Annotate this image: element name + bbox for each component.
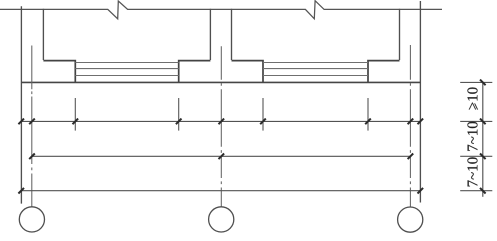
slab bottom edge line	[21, 81, 420, 83]
slab joint thin lines left span	[75, 63, 178, 76]
right wall step profile	[368, 61, 400, 83]
extension stub at x=178	[178, 98, 180, 131]
grid bubble A	[19, 207, 44, 232]
right chain extension line at slab edge	[460, 81, 492, 83]
wire left inner wall line x=43	[42, 9, 44, 60]
dimension line 3	[21, 190, 420, 192]
axis centerline A (left)	[31, 46, 33, 207]
right chain extension line at dim3 level	[460, 190, 492, 192]
ticks on right vertical dimension line	[480, 80, 486, 194]
wire right inner wall line x=399	[399, 9, 401, 60]
grid bubble C	[398, 207, 423, 232]
grid bubble B	[209, 207, 234, 232]
dimension text 7~10 (upper)	[467, 122, 477, 151]
axis centerline C (right)	[409, 45, 411, 207]
left wall step profile	[43, 61, 75, 83]
wire right outer wall line x=420	[419, 1, 421, 203]
ticks on dimension line 3	[18, 188, 423, 194]
dimension line 1	[21, 120, 420, 122]
top wall line with two break symbols	[0, 1, 442, 19]
right chain extension line at dim1 level	[460, 120, 492, 122]
wire middle wall left line x=210	[209, 9, 211, 60]
middle wall step profile	[179, 61, 263, 83]
wire middle wall right line x=231	[231, 9, 233, 60]
wire left outer wall line x=21	[20, 6, 22, 203]
axis centerline B (middle)	[220, 46, 222, 207]
extension stub at x=75	[74, 98, 76, 131]
extension stub at x=263	[262, 98, 264, 131]
dimension text >=10	[467, 87, 478, 109]
slab joint thin lines right span	[263, 63, 368, 76]
dimension line 2	[32, 155, 411, 157]
dimension text 7~10 (lower)	[467, 157, 477, 186]
right vertical dimension line	[482, 82, 484, 197]
ticks on dimension line 2	[29, 154, 413, 160]
right chain extension line at dim2 level	[460, 155, 492, 157]
extension stub at x=368	[367, 98, 369, 131]
ticks on dimension line 1	[18, 119, 423, 125]
